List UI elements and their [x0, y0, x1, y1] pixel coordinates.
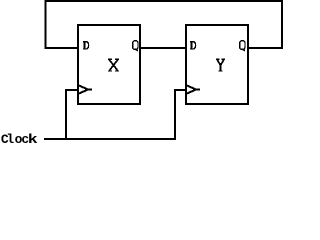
svg-text:l: l — [6, 132, 14, 147]
flip-flop Y name label — [216, 59, 225, 71]
clock triangle of X — [79, 86, 92, 94]
pin label D of X — [83, 42, 88, 50]
flip-flop X body — [78, 25, 140, 104]
clock triangle of Y — [187, 86, 200, 94]
pin label Q of Y — [240, 41, 245, 51]
wire: clock bottom rail — [44, 89, 175, 139]
svg-text:k: k — [28, 133, 38, 147]
wire: feedback top rail (Q of Y to D of X) — [46, 1, 283, 48]
flip-flop Y body — [186, 25, 248, 104]
net label Clock — [1, 132, 38, 147]
wire: clock branch to X — [66, 90, 78, 140]
flip-flop X name label — [108, 59, 119, 71]
pin label Q of X — [133, 41, 138, 51]
pin label D of Y — [190, 42, 195, 50]
wire: Q of X to D of Y — [140, 47, 186, 49]
wire: clock stub into Y — [174, 89, 186, 91]
